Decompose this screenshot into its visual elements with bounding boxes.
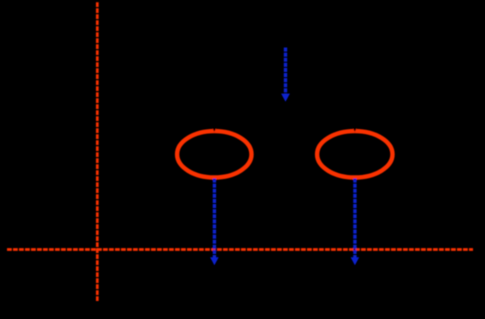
arrow right (blue dashed, down) [351,179,360,266]
arrow top (blue dashed, down) [281,48,290,102]
vertical axis (red dashed) [96,2,99,301]
ellipse 2 top notch [353,128,357,132]
ellipse highlight 1 [177,131,251,177]
ellipse highlight 2 [317,131,392,177]
arrow left (blue dashed, down) [210,179,219,266]
horizontal axis (red dashed) [7,248,473,251]
ellipse 1 top notch [212,128,216,132]
